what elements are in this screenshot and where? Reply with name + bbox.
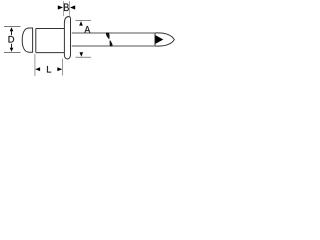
dimension L extension line right [62, 59, 64, 76]
background [0, 0, 180, 88]
mandrel stem top edge [72, 32, 155, 34]
dimension A extension line top [76, 20, 92, 22]
dimension B extension line right [69, 1, 71, 16]
dimension L arrow right [57, 67, 62, 71]
dimension B arrow left [58, 5, 63, 9]
rivet mandrel head dome [22, 28, 32, 52]
rivet flange head left face [63, 29, 65, 53]
rivet body left edge [35, 28, 37, 52]
dimension D arrow up [10, 27, 14, 31]
mandrel stem bottom edge [72, 45, 155, 47]
mandrel break notch lower [110, 40, 113, 46]
dimension A arrow down [80, 52, 84, 57]
dimension A label [84, 26, 90, 33]
dimension D line upper [11, 31, 13, 35]
dimension D extension line top [4, 26, 21, 28]
dimension B label [64, 4, 69, 12]
dimension L arrow left [35, 67, 40, 71]
mandrel tip lens [155, 33, 174, 46]
dimension D label [9, 36, 15, 43]
dimension D extension line bottom [4, 52, 21, 54]
rivet body bottom edge [36, 52, 65, 54]
dimension D arrow down [10, 48, 14, 52]
dimension D line lower [11, 44, 13, 48]
dimension B arrow right [70, 5, 75, 9]
mandrel tip cone [155, 35, 163, 44]
dimension B extension line left [63, 1, 65, 16]
dimension A arrow up [79, 21, 83, 26]
dimension L extension line left [34, 54, 36, 76]
dimension L label [47, 66, 51, 73]
rivet body top edge [36, 28, 65, 30]
rivet flange head upper profile [64, 17, 70, 59]
mandrel break notch upper [106, 33, 110, 40]
dimension A extension line bottom [76, 56, 92, 58]
